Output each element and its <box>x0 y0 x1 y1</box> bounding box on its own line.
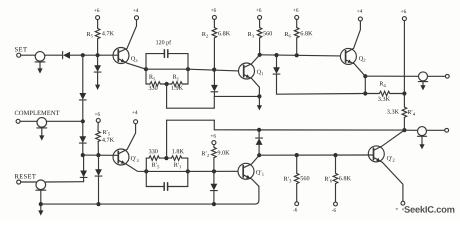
capacitor C1 120pf on top edge <box>146 40 188 57</box>
wire node down to diode D7 <box>258 130 260 138</box>
wire R4 node to R'4 <box>403 94 405 108</box>
wire R'2 down through base wire to diode D8 <box>213 158 215 184</box>
resistor R'6 6.8K (vertical) <box>333 173 338 183</box>
node SET line / R5 <box>96 53 100 57</box>
+6 supply terminal (over R6) <box>293 8 299 19</box>
wire +6 to R'2 <box>213 145 215 148</box>
RESET terminal <box>17 180 21 184</box>
+6 supply terminal (over R5) <box>94 8 100 19</box>
wire COMPLEMENT terminal to pulse symbol <box>20 120 37 122</box>
transistor Q1 <box>239 55 264 97</box>
SET pulse-input symbol (circle) <box>35 52 45 62</box>
wire bridged-T right edge <box>187 54 189 84</box>
wire Q2 collector node to output 1 <box>365 75 418 77</box>
COMPLEMENT terminal <box>16 119 20 123</box>
resistor R'2 9.0K (vertical) <box>212 147 217 157</box>
+4 supply terminal (Q3 emitter) <box>133 9 138 20</box>
diode D10 (pointing down) <box>95 169 102 176</box>
node COMPLEMENT junction <box>81 119 85 123</box>
wire RESET terminal to pulse symbol <box>21 181 37 183</box>
wire between R5 and R1 <box>160 83 171 85</box>
RESET symbol shield bar <box>36 189 46 191</box>
output 1 ground stem <box>422 82 424 86</box>
wire R'5 to Q'3 base wire <box>97 142 99 156</box>
wire jog down (x=214.3) <box>213 120 215 130</box>
COMPLEMENT ground arrow <box>39 135 44 140</box>
output 2 pulse symbol (circle) <box>418 127 427 136</box>
wire R3 to Q1 collector node <box>259 38 261 55</box>
resistor R'3 560 (vertical) <box>294 173 299 183</box>
transistor Q3 <box>113 20 146 69</box>
output 2 terminal <box>445 128 449 132</box>
Q'2 emitter terminal <box>401 201 405 205</box>
node D10 / ground bus <box>96 202 100 206</box>
wire node to diode D6 <box>276 55 278 67</box>
+6 supply terminal (over R2) <box>211 8 217 19</box>
COMPLEMENT symbol shield bar <box>37 127 47 129</box>
SET ground arrow <box>37 68 42 73</box>
resistor R6 6.8K <box>294 28 299 38</box>
node R6 connection <box>295 53 299 57</box>
node Q'2 collector / output 2 <box>402 128 406 132</box>
wire between R'5 and R'1 <box>159 157 171 159</box>
node Q'1 collector <box>257 153 261 157</box>
SET symbol shield bar <box>35 61 45 63</box>
wire D8 to ground bus <box>213 191 215 205</box>
wire R'6 from base wire down <box>335 155 337 173</box>
resistor R'1 1.8K (bottom box) <box>171 149 187 168</box>
wire output 1 circle to terminal <box>428 75 446 77</box>
wire R'6 to -6 terminal <box>335 184 337 203</box>
RESET pulse-input symbol (circle) <box>36 180 46 190</box>
node R'2 chain / ground bus <box>212 202 216 206</box>
+4 supply terminal (Q'3 emitter) <box>132 111 137 124</box>
+4 supply terminal (Q2 emitter) <box>357 9 363 21</box>
wire +6 to R3 <box>259 19 261 27</box>
wire Q2 collector down to R4 <box>364 76 366 93</box>
+6 supply terminal (over R3) <box>256 8 262 19</box>
wire D6 down to R4 bus <box>277 74 366 94</box>
wire +6 spine down to R4 node <box>403 21 405 94</box>
diode D7 (pointing up) <box>256 138 263 145</box>
wire diode D2 to ground arrow <box>97 72 99 85</box>
wire D5 to jog corner <box>213 92 215 97</box>
output 2 ground stem <box>421 136 423 145</box>
node Q1 emitter ground junction <box>257 94 261 98</box>
node SET line / diode chain <box>81 53 85 57</box>
node R'6 connection <box>333 153 337 157</box>
ground arrow at Q1 emitter <box>257 96 262 110</box>
output 1 shield bar <box>418 81 427 83</box>
transistor Q'1 <box>238 155 264 186</box>
+6 supply terminal (over R'2) <box>211 134 216 145</box>
wire D3 to COMPLEMENT node <box>82 100 84 136</box>
COMPLEMENT symbol ground stem <box>41 128 43 136</box>
wire +6 to R'5 <box>97 122 99 131</box>
resistor R4 3.3K (horizontal) <box>365 81 404 100</box>
wire bottom box right edge <box>187 158 189 186</box>
node bridged-T left <box>144 67 148 71</box>
node bottom box right <box>186 169 190 173</box>
-6 supply terminal (under R'6) <box>332 202 338 212</box>
+6 supply terminal (over R'5) <box>95 112 101 122</box>
diode D4 (pointing down) <box>79 136 86 143</box>
-6 supply terminal (under R'3) <box>293 202 299 212</box>
wire bottom tap vertical <box>166 120 168 158</box>
wire R'3 from base wire down <box>296 155 298 173</box>
diode D3 (pointing down) <box>79 93 86 100</box>
diode D2 (pointing down) <box>94 65 101 72</box>
wire tap jog: up <box>213 96 215 108</box>
wire R'4 to Q'2 collector node <box>403 117 405 130</box>
wire D10 to ground bus <box>98 176 100 204</box>
wire RESET symbol to diode chain <box>46 181 84 183</box>
wire D9 to Q'3 base wire <box>83 155 85 170</box>
wire cross-coupling line y=130 <box>214 129 404 131</box>
wire Q'3 base wire <box>83 154 113 156</box>
resistor R'5 330 (bottom box) <box>146 149 159 168</box>
watermark <box>396 206 455 213</box>
wire tap jog to Q1 emitter: down <box>166 84 168 108</box>
wire cross-coupling to Q'2 base <box>259 154 368 156</box>
node Q1 collector <box>258 53 262 57</box>
wire bridged-T mid line <box>146 68 188 70</box>
resistor R'4 3.3K (vertical) <box>402 107 407 117</box>
RESET ground arrow <box>38 210 43 215</box>
wire bottom box mid line <box>146 170 188 172</box>
wire SET symbol to diode D1 <box>45 54 63 56</box>
diode D1 (cathode left) <box>63 52 70 59</box>
resistor R3 560 <box>257 28 262 38</box>
wire jog to Q1 emitter node <box>214 95 259 97</box>
output 1 ground arrow <box>420 85 425 90</box>
diode D8 (pointing down) <box>211 184 218 191</box>
node bridged-T right <box>186 67 190 71</box>
resistor R2 6.8K <box>212 28 217 38</box>
SET terminal <box>17 53 21 57</box>
wire RESET vertical up to D9 <box>83 177 85 182</box>
output 2 ground arrow <box>419 144 424 149</box>
capacitor C'1 on bottom edge <box>146 183 188 191</box>
transistor Q'3 <box>113 124 146 172</box>
node base wire / diode chain <box>81 153 85 157</box>
node R4 left <box>363 91 367 95</box>
RESET symbol stem to bus <box>40 190 42 204</box>
node RESET / ground bus <box>39 202 43 206</box>
RESET ground stem below bus <box>40 204 42 211</box>
wire tap jog: right <box>167 107 215 109</box>
node R'3 connection <box>295 153 299 157</box>
wire R6 to base wire <box>296 38 298 55</box>
node R4 / R'4 / +6 spine <box>402 91 406 95</box>
wire R2 down through mid-wire to diode D5 <box>213 38 215 85</box>
wire cross-coupling to Q2 base <box>260 55 341 56</box>
diode D9 (pointing down) <box>80 171 87 178</box>
node bridged-T tap <box>165 82 169 86</box>
wire +6 to R5 <box>97 20 99 29</box>
node bottom box tap <box>164 156 168 160</box>
wire Q'1 emitter down to bus corner <box>255 186 259 204</box>
wire output 2 circle to terminal <box>427 129 445 131</box>
transistor Q'2 <box>368 130 404 201</box>
node Q2 collector <box>363 74 367 78</box>
wire diode chain x=82.8 upper segment <box>82 55 84 93</box>
node bottom box left <box>144 169 148 173</box>
node diode D6 branch <box>274 53 278 57</box>
wire D4 to Q'3 base wire <box>82 143 84 155</box>
wire bridged-T left edge <box>145 54 147 84</box>
node R2 / base wire <box>212 68 216 72</box>
wire D7 to Q'1 collector node <box>258 145 260 155</box>
node base wire / R'5 <box>96 153 100 157</box>
output 2 shield bar <box>417 135 426 137</box>
output 1 pulse symbol (circle) <box>419 72 428 81</box>
wire base node down to clamp diode D2 <box>97 55 99 65</box>
wire R5 to base node <box>97 39 99 55</box>
resistor R5 4.7K (vertical) <box>95 28 100 38</box>
wire R'3 to -6 terminal <box>296 184 298 202</box>
+6 supply terminal (top right spine) <box>401 9 407 20</box>
ground arrow below D2 <box>95 85 100 90</box>
output 1 terminal <box>445 74 449 78</box>
node R'2 / base wire <box>212 169 216 173</box>
COMPLEMENT input label <box>15 111 60 115</box>
wire COMPLEMENT symbol to diode chain <box>47 120 83 122</box>
wire box right node to Q1 base <box>188 69 239 71</box>
resistor R'5 4.7K (vertical) <box>96 131 101 141</box>
SET symbol ground stem <box>39 62 41 69</box>
wire +6 to R2 <box>213 19 215 27</box>
node y130 / diode D7 branch <box>257 128 261 132</box>
RESET input label <box>15 174 36 178</box>
wire ground bus <box>41 203 255 205</box>
transistor Q2 <box>340 21 365 76</box>
wire bottom box right node to Q'1 base <box>188 170 238 172</box>
wire node to output 2 <box>404 129 417 131</box>
wire bottom box left edge <box>145 158 147 186</box>
wire jog left to bottom tap (y=120.2) <box>167 119 215 121</box>
wire SET terminal to pulse symbol <box>21 54 36 56</box>
resistor R5 330 (top box) <box>146 75 160 90</box>
diode D6 (pointing down) <box>273 67 280 74</box>
diode D5 (pointing down) <box>211 85 218 92</box>
COMPLEMENT pulse-input symbol (circle) <box>37 118 47 128</box>
wire base node down to diode D10 <box>98 155 100 169</box>
wire +6 to R6 <box>296 19 298 27</box>
SET input label <box>15 47 27 51</box>
resistor R1 1.9K (top box) <box>171 75 188 90</box>
wire diode D1 to Q3 base <box>70 54 113 56</box>
